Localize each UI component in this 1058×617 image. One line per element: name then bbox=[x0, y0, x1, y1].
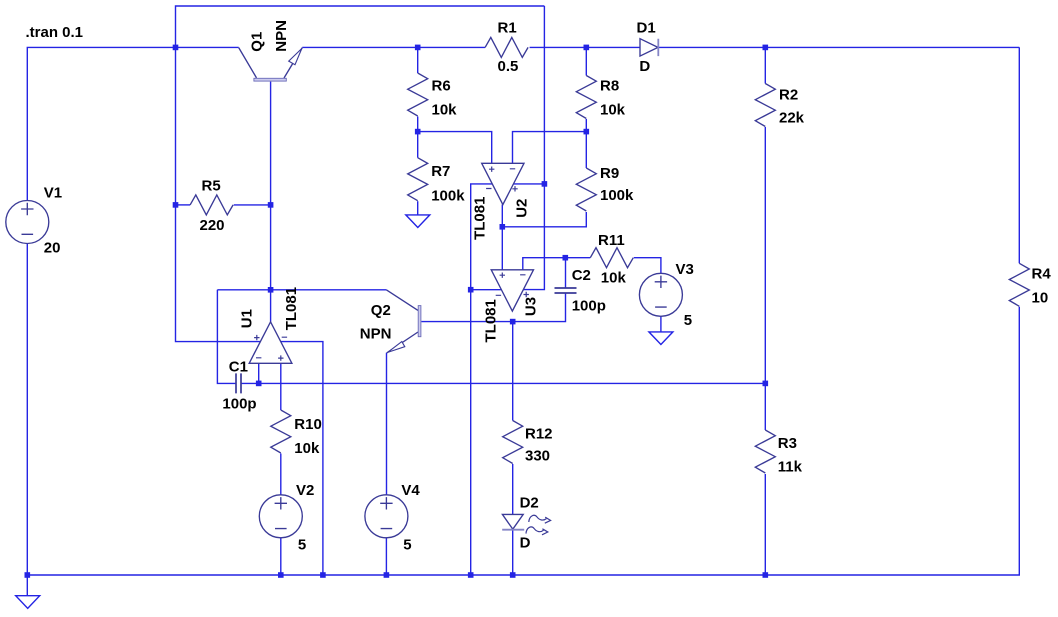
svg-text:V3: V3 bbox=[676, 261, 694, 278]
svg-text:220: 220 bbox=[200, 217, 225, 234]
svg-text:100p: 100p bbox=[572, 297, 606, 314]
svg-text:V2: V2 bbox=[296, 482, 314, 499]
svg-text:100k: 100k bbox=[431, 188, 465, 205]
svg-text:R8: R8 bbox=[600, 77, 619, 94]
svg-text:Q1: Q1 bbox=[248, 32, 265, 52]
svg-text:V4: V4 bbox=[401, 482, 420, 499]
svg-text:5: 5 bbox=[684, 312, 692, 329]
svg-text:R9: R9 bbox=[600, 165, 619, 182]
svg-text:R11: R11 bbox=[598, 232, 625, 249]
svg-text:100p: 100p bbox=[222, 396, 256, 413]
svg-text:5: 5 bbox=[298, 536, 306, 553]
svg-text:V1: V1 bbox=[44, 185, 62, 202]
svg-text:330: 330 bbox=[525, 448, 550, 465]
svg-text:NPN: NPN bbox=[273, 20, 290, 52]
svg-text:.tran 0.1: .tran 0.1 bbox=[26, 24, 84, 41]
svg-text:11k: 11k bbox=[778, 458, 803, 475]
svg-text:TL081: TL081 bbox=[482, 299, 499, 342]
svg-text:10k: 10k bbox=[432, 102, 458, 119]
svg-text:D1: D1 bbox=[637, 20, 656, 37]
svg-text:R6: R6 bbox=[432, 77, 451, 94]
svg-text:C2: C2 bbox=[572, 267, 591, 284]
svg-text:C1: C1 bbox=[229, 359, 248, 376]
svg-text:Q2: Q2 bbox=[371, 302, 391, 319]
svg-text:R3: R3 bbox=[778, 435, 797, 452]
svg-text:100k: 100k bbox=[600, 187, 634, 204]
svg-text:R4: R4 bbox=[1032, 266, 1052, 283]
svg-text:10: 10 bbox=[1032, 289, 1049, 306]
svg-text:R12: R12 bbox=[525, 426, 553, 443]
svg-text:5: 5 bbox=[403, 536, 411, 553]
svg-text:D: D bbox=[520, 535, 531, 552]
svg-text:D2: D2 bbox=[520, 495, 539, 512]
svg-text:22k: 22k bbox=[779, 109, 805, 126]
svg-text:R2: R2 bbox=[779, 87, 798, 104]
svg-text:R1: R1 bbox=[498, 20, 517, 37]
svg-text:R7: R7 bbox=[431, 163, 450, 180]
svg-text:10k: 10k bbox=[600, 102, 626, 119]
svg-text:D: D bbox=[639, 58, 650, 75]
svg-text:NPN: NPN bbox=[360, 326, 392, 343]
svg-text:U1: U1 bbox=[239, 309, 256, 328]
svg-text:0.5: 0.5 bbox=[498, 58, 519, 75]
svg-text:TL081: TL081 bbox=[283, 287, 300, 330]
svg-text:U3: U3 bbox=[523, 297, 540, 316]
svg-text:10k: 10k bbox=[294, 440, 320, 457]
svg-text:R5: R5 bbox=[202, 177, 221, 194]
svg-text:10k: 10k bbox=[601, 270, 627, 287]
svg-text:R10: R10 bbox=[294, 416, 322, 433]
svg-text:TL081: TL081 bbox=[471, 197, 488, 240]
svg-text:20: 20 bbox=[44, 240, 61, 257]
svg-text:U2: U2 bbox=[514, 199, 531, 218]
